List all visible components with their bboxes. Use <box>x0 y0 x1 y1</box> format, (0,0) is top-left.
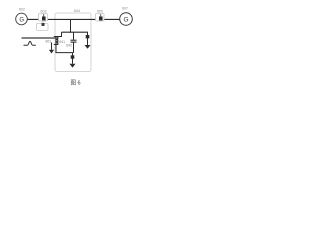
svg-text:602: 602 <box>19 8 25 12</box>
svg-text:601: 601 <box>46 39 52 43</box>
svg-text:G: G <box>19 18 24 24</box>
svg-text:604: 604 <box>74 9 80 13</box>
svg-text:605: 605 <box>97 10 103 14</box>
svg-text:641: 641 <box>59 40 65 44</box>
svg-text:607: 607 <box>122 7 128 11</box>
svg-text:图 6: 图 6 <box>70 79 80 87</box>
svg-text:642: 642 <box>66 43 72 47</box>
svg-text:603: 603 <box>41 10 47 14</box>
svg-text:G: G <box>123 17 128 24</box>
